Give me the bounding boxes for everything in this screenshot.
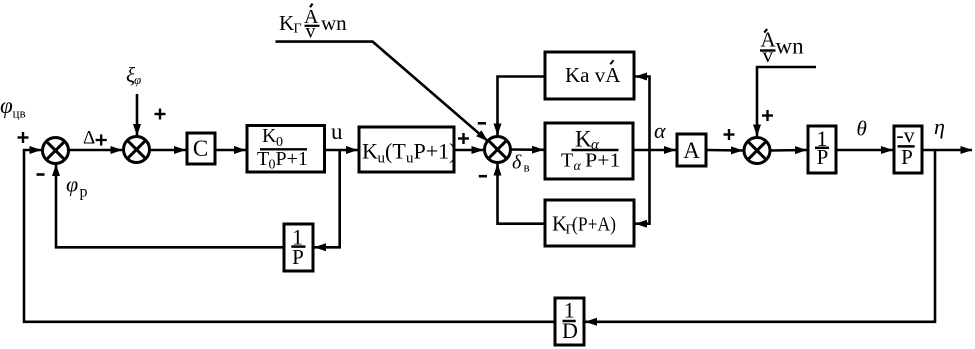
wire output tap down to block 1/D: [586, 150, 936, 322]
svg-text:(P+A): (P+A): [572, 213, 616, 235]
wire input A/v wn into summing junction 4: [757, 67, 816, 136]
fraction bar 1/P left: [291, 245, 305, 248]
label phi_p: [66, 172, 88, 201]
svg-text:D: D: [562, 318, 578, 343]
wire block K0 to block Ku: [324, 149, 358, 152]
block -v/P: [894, 126, 922, 173]
wire summing junction 1 to summing junction 2: [69, 149, 123, 152]
svg-text:-v: -v: [896, 123, 914, 148]
label T0P+1 denominator: [257, 148, 308, 173]
svg-text:θ: θ: [857, 117, 867, 141]
label KG(P+A) in block: [552, 211, 616, 237]
svg-text:φ: φ: [66, 172, 78, 197]
svg-text:0: 0: [269, 158, 276, 173]
svg-text:P+1: P+1: [276, 148, 308, 170]
svg-text:T: T: [257, 148, 269, 170]
wire feedback down to block KG(P+A): [636, 150, 650, 224]
fraction bar A/v top-left: [305, 25, 320, 27]
summing junction 4: [744, 138, 770, 164]
svg-text:v: v: [306, 21, 316, 43]
block KG(P+A): [545, 200, 634, 246]
wire block 1/P right to block -v/P: [836, 149, 893, 152]
svg-text:α: α: [654, 118, 666, 143]
svg-text:φ: φ: [0, 93, 13, 118]
svg-text:K: K: [362, 139, 378, 164]
label Delta plus: [83, 128, 107, 149]
block 1/P left: [284, 224, 313, 271]
label xi_phi: [126, 63, 141, 87]
svg-text:K: K: [262, 125, 277, 147]
label plus at summing junction 3: [458, 133, 469, 144]
label delta_v: [512, 152, 530, 175]
fraction bar 1/P right: [815, 147, 829, 150]
svg-text:P: P: [901, 145, 913, 169]
svg-text:Г: Г: [294, 22, 302, 37]
wire block 1/P to summing junction 1 (phi_p feedback): [56, 165, 284, 248]
svg-text:цв: цв: [13, 106, 26, 121]
wire feedback from 1/D to summing junction 1: [24, 150, 555, 322]
wire block Ku to summing junction 3: [454, 149, 483, 152]
label minus bottom at summing junction 3: [479, 175, 487, 178]
svg-text:P+1): P+1): [414, 139, 457, 164]
label Kalpha numerator: [575, 126, 600, 153]
fraction bar 1/D: [563, 320, 576, 323]
svg-text:T: T: [561, 149, 573, 171]
svg-text:P: P: [292, 245, 304, 269]
svg-text:P: P: [817, 145, 829, 169]
block Ku(TuP+1): [359, 127, 454, 172]
wire block Ka vA to summing junction 3 top: [498, 77, 546, 136]
summing junction 2: [124, 137, 150, 163]
block 1/P right: [808, 126, 836, 173]
svg-text:v: v: [763, 43, 774, 67]
fraction bar A/v top-right: [760, 49, 776, 51]
svg-text:φ: φ: [134, 72, 141, 87]
summing junction 3: [485, 137, 511, 163]
wire branch u down into block 1/P: [315, 150, 340, 247]
svg-text:δ: δ: [512, 152, 522, 174]
label A/v wn input: [761, 28, 805, 67]
label TalphaP+1 denominator: [561, 149, 621, 174]
svg-text:K: K: [279, 11, 294, 35]
label Ku(TuP+1): [362, 139, 456, 167]
label KG A/v wn input: [279, 4, 347, 43]
svg-text:α: α: [574, 159, 582, 174]
svg-text:u: u: [331, 119, 343, 144]
wire input xi_phi into summing junction 2: [136, 94, 139, 136]
summing junction 1: [43, 138, 69, 164]
svg-text:wn: wn: [321, 11, 347, 35]
label minus at summing junction 1: [37, 173, 45, 176]
svg-text:A: A: [683, 138, 700, 163]
label phi_cv: [0, 93, 26, 121]
fraction bar Kalpha: [572, 149, 619, 152]
label minus top at summing junction 3: [478, 122, 486, 125]
label K0 numerator: [262, 125, 283, 150]
svg-text:Δ: Δ: [83, 128, 95, 149]
svg-text:в: в: [524, 160, 530, 175]
wire block C to block K0: [215, 149, 246, 152]
svg-text:wn: wn: [776, 34, 805, 59]
wire input KG A/v wn diagonal into summing junction 3: [276, 42, 488, 141]
block 1/D: [555, 298, 584, 345]
wire feedback up to block Ka vA: [636, 77, 650, 151]
svg-text:K: K: [575, 126, 592, 151]
svg-text:C: C: [193, 136, 208, 161]
block K0/(T0P+1): [247, 126, 325, 173]
wire summing junction 2 to block C: [150, 149, 186, 152]
label plus at summing junction 1: [18, 132, 29, 143]
svg-text:P+1: P+1: [585, 149, 621, 171]
wire block Kalpha to block A: [633, 149, 676, 152]
label plus at summing junction 4: [762, 110, 773, 121]
block Kalpha/(TalphaP+1): [545, 123, 633, 179]
svg-text:η: η: [934, 114, 945, 139]
svg-text:р: р: [80, 184, 88, 201]
block C: [187, 133, 215, 164]
wire block KG(P+A) to summing junction 3 bottom: [498, 164, 546, 224]
label plus at summing junction 2: [155, 109, 166, 120]
block Ka vA: [545, 52, 634, 99]
fraction bar K0: [260, 148, 307, 150]
wire summing junction 3 to block Kalpha: [511, 148, 544, 151]
wire block A to summing junction 4: [706, 149, 743, 152]
label plus after block A: [724, 129, 735, 140]
wire block -v/P to output eta: [922, 149, 972, 152]
label Ka vA in block: [565, 60, 621, 87]
block A: [677, 134, 706, 166]
fraction bar -v/P: [898, 145, 915, 148]
svg-text:Ka vA: Ka vA: [565, 63, 621, 87]
svg-text:(T: (T: [385, 139, 406, 164]
wire summing junction 4 to block 1/P right: [770, 149, 807, 152]
